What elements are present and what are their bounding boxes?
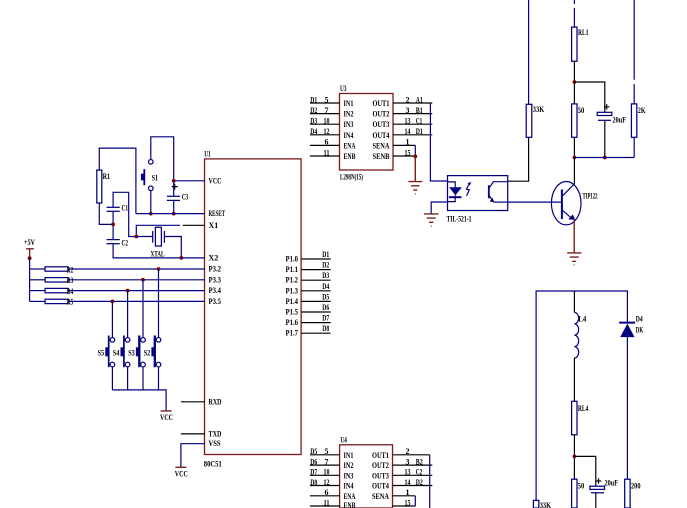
svg-text:OUT4: OUT4 xyxy=(373,131,390,140)
pin 1 SENA (U4) xyxy=(393,488,416,497)
svg-text:D3: D3 xyxy=(322,271,329,280)
svg-text:A1: A1 xyxy=(416,95,423,104)
switch S2 xyxy=(144,336,161,368)
node junction P3.4 drop xyxy=(126,289,130,293)
svg-text:XTAL: XTAL xyxy=(151,250,165,259)
svg-text:R1: R1 xyxy=(103,172,111,181)
capacitor 20uF (top right, polarized) xyxy=(597,104,626,125)
svg-text:P1.4: P1.4 xyxy=(286,297,299,306)
svg-text:OUT1: OUT1 xyxy=(372,451,389,460)
svg-text:10: 10 xyxy=(324,117,330,126)
wire VCC pin xyxy=(174,180,205,182)
ground under U3 sense pins xyxy=(408,156,422,193)
resistor 50 (bottom) xyxy=(572,479,585,508)
pin 6 ENA xyxy=(310,138,340,147)
pin 2 OUT1 (U4) xyxy=(393,447,430,456)
svg-text:13: 13 xyxy=(405,468,411,477)
svg-text:C1: C1 xyxy=(416,117,423,126)
resistor RL4 xyxy=(572,401,589,435)
wire drop to S4 xyxy=(127,291,129,338)
node junction P3.5 drop xyxy=(111,300,115,304)
svg-text:OUT4: OUT4 xyxy=(372,482,389,491)
wire S4 bottom xyxy=(127,367,129,390)
wire net A1 to optocoupler anode xyxy=(430,103,447,181)
svg-text:1: 1 xyxy=(406,488,410,497)
pin 3 OUT2 net B1 xyxy=(393,106,432,115)
wire bottom rail xyxy=(574,157,634,159)
diode D4 xyxy=(619,315,644,338)
svg-text:SENA: SENA xyxy=(372,492,389,501)
svg-text:IN2: IN2 xyxy=(344,461,354,470)
svg-text:50: 50 xyxy=(578,481,585,490)
svg-text:OUT3: OUT3 xyxy=(373,120,390,129)
svg-text:L4: L4 xyxy=(578,315,586,324)
svg-text:R3: R3 xyxy=(67,276,74,285)
wire crystal right to X2 xyxy=(164,237,181,258)
wire transistor collector up xyxy=(573,182,575,184)
svg-text:50: 50 xyxy=(578,106,585,115)
capacitor 20uF (bottom, polarized) xyxy=(590,478,618,493)
svg-text:200: 200 xyxy=(631,481,641,490)
wire +5V column xyxy=(29,258,31,301)
svg-text:P1.5: P1.5 xyxy=(286,308,299,317)
pin 2 OUT1 net A1 xyxy=(393,95,432,104)
node junction RL4/cap xyxy=(573,455,577,459)
svg-text:D5: D5 xyxy=(322,292,329,301)
svg-text:14: 14 xyxy=(405,478,411,487)
svg-text:IN1: IN1 xyxy=(344,451,354,460)
svg-text:P3.3: P3.3 xyxy=(209,275,222,284)
node junction S1/RESET xyxy=(149,212,153,216)
pin P1.0 net D1 xyxy=(302,250,331,259)
wire rail to inductor xyxy=(573,291,575,312)
resistor 33K (bottom) xyxy=(533,500,551,508)
pin D7/10 IN3 (U4) xyxy=(310,468,340,477)
wire X2 pin xyxy=(181,257,205,259)
optocoupler TIL-521-1 xyxy=(447,176,508,224)
wire inductor to RL4 xyxy=(573,358,575,402)
node junction P3.2 drop xyxy=(157,267,161,271)
wire SENA to SENB junction xyxy=(414,145,416,156)
svg-text:D4: D4 xyxy=(322,282,329,291)
svg-text:TIL-521-1: TIL-521-1 xyxy=(447,215,472,224)
svg-text:P1.2: P1.2 xyxy=(286,276,299,285)
svg-text:P1.3: P1.3 xyxy=(286,286,299,295)
pin P1.2 net D3 xyxy=(302,271,331,280)
svg-text:VCC: VCC xyxy=(209,176,222,185)
resistor 200 xyxy=(625,479,641,508)
power VCC under switches xyxy=(160,411,173,422)
phototransistor inside optocoupler xyxy=(488,185,490,198)
svg-text:IN2: IN2 xyxy=(344,110,354,119)
svg-text:D6: D6 xyxy=(310,457,317,466)
svg-text:D2: D2 xyxy=(310,106,317,115)
svg-text:14: 14 xyxy=(405,127,411,136)
svg-text:X1: X1 xyxy=(209,221,219,230)
switch S3 xyxy=(128,336,145,368)
resistor 33K (opto pull-up) xyxy=(526,104,545,137)
ground under transistor emitter xyxy=(567,253,581,265)
svg-text:ENB: ENB xyxy=(344,501,356,508)
ground under optocoupler xyxy=(424,214,439,226)
svg-text:1: 1 xyxy=(406,138,410,147)
svg-text:P1.7: P1.7 xyxy=(286,329,299,338)
wire switch common rail to VCC xyxy=(112,390,166,411)
wire U4 SENA to SENB xyxy=(414,496,416,506)
IC U1 80C51 box xyxy=(204,149,301,468)
svg-text:VCC: VCC xyxy=(160,413,173,422)
pin P1.1 net D2 xyxy=(302,261,331,270)
svg-text:C2: C2 xyxy=(416,468,423,477)
wire right column top xyxy=(633,0,635,104)
pin 11 ENB (U4) xyxy=(310,498,340,507)
LED inside optocoupler xyxy=(448,182,456,187)
wire diode to resistor 200 xyxy=(626,337,628,479)
svg-text:15: 15 xyxy=(405,498,411,507)
svg-text:D8: D8 xyxy=(310,478,317,487)
svg-text:15: 15 xyxy=(405,148,411,157)
wire drop to S5 xyxy=(111,301,113,337)
wire cap 2 bottom xyxy=(595,493,597,508)
pin P1.6 net D7 xyxy=(302,314,331,323)
resistor R5 xyxy=(30,298,205,307)
pin VSS stub to power xyxy=(181,444,205,468)
svg-text:80C51: 80C51 xyxy=(204,460,222,469)
resistor RL1 xyxy=(572,27,589,61)
svg-text:C2: C2 xyxy=(122,239,129,248)
svg-text:3: 3 xyxy=(406,457,410,466)
svg-text:DK: DK xyxy=(636,326,644,335)
svg-text:D5: D5 xyxy=(310,447,317,456)
svg-text:5: 5 xyxy=(325,95,329,104)
svg-text:7: 7 xyxy=(325,457,329,466)
svg-text:P1.0: P1.0 xyxy=(286,255,299,264)
IC U4 L298N box xyxy=(340,436,393,508)
svg-text:6: 6 xyxy=(325,138,329,147)
svg-text:D7: D7 xyxy=(322,314,329,323)
svg-text:+5V: +5V xyxy=(24,238,35,247)
svg-text:OUT1: OUT1 xyxy=(373,99,390,108)
svg-text:2: 2 xyxy=(406,95,410,104)
svg-text:6: 6 xyxy=(325,488,329,497)
svg-text:20uF: 20uF xyxy=(613,116,627,125)
pin TXD stub xyxy=(181,433,205,435)
svg-text:33K: 33K xyxy=(540,501,552,508)
svg-text:12: 12 xyxy=(324,478,330,487)
svg-text:U1: U1 xyxy=(204,149,211,158)
svg-text:S4: S4 xyxy=(113,348,120,357)
svg-text:D4: D4 xyxy=(310,127,317,136)
svg-text:D1: D1 xyxy=(322,250,329,259)
pin RXD stub xyxy=(181,401,205,403)
svg-text:20uF: 20uF xyxy=(605,479,619,488)
svg-text:D1: D1 xyxy=(416,127,423,136)
svg-text:11: 11 xyxy=(324,498,330,507)
capacitor C2 xyxy=(107,239,129,248)
wire middle column top xyxy=(573,0,575,27)
svg-text:U3: U3 xyxy=(340,84,347,93)
svg-text:D3: D3 xyxy=(310,117,317,126)
wire U4 pin2 down xyxy=(429,455,431,508)
wire S1 top loop to VCC xyxy=(151,137,174,181)
wire crystal left xyxy=(136,236,152,238)
svg-text:RL4: RL4 xyxy=(578,404,589,413)
svg-text:2K: 2K xyxy=(638,106,646,115)
pin 15 SENB xyxy=(393,148,415,157)
node junction C3 top xyxy=(172,179,176,183)
inductor L4 xyxy=(574,312,586,358)
wire optocoupler emitter to transistor base xyxy=(508,201,562,203)
svg-text:ENA: ENA xyxy=(344,141,356,150)
svg-text:D8: D8 xyxy=(322,324,329,333)
wire C2 bottom to X2 xyxy=(113,244,181,258)
svg-text:L298N(15): L298N(15) xyxy=(340,173,363,182)
node junction R1/C1/C2 xyxy=(111,223,115,227)
svg-text:ENA: ENA xyxy=(344,492,356,501)
svg-text:7: 7 xyxy=(325,106,329,115)
svg-text:3: 3 xyxy=(406,106,410,115)
node junction SENB ground xyxy=(413,155,417,159)
crystal XTAL xyxy=(151,227,165,258)
resistor 2K xyxy=(631,104,646,137)
svg-text:IN4: IN4 xyxy=(344,482,354,491)
svg-text:IN3: IN3 xyxy=(344,471,354,480)
transistor Q1 TIP122 xyxy=(551,182,597,225)
pin 1 SENA xyxy=(393,138,415,147)
svg-text:SENA: SENA xyxy=(373,141,390,150)
svg-text:13: 13 xyxy=(405,117,411,126)
wire junction to cap 2 xyxy=(574,456,595,486)
pin 14 OUT4 net D1 xyxy=(393,127,432,136)
svg-text:S1: S1 xyxy=(152,174,159,183)
wire X1 pin xyxy=(136,225,180,236)
svg-text:S5: S5 xyxy=(98,348,105,357)
wire 50 bottom to bottom rail xyxy=(573,137,575,157)
wire RL4 bottom xyxy=(573,435,575,479)
wire net V+ left column top xyxy=(528,0,530,104)
pin 15 SENB (U4) xyxy=(393,498,416,507)
light arrow inside optocoupler xyxy=(466,185,469,196)
node junction C3/RESET xyxy=(172,212,176,216)
pin P1.5 net D6 xyxy=(302,303,331,312)
node junction P3.3 drop xyxy=(141,278,145,282)
switch S5 xyxy=(98,336,115,368)
capacitor C3 (reset, polarized) xyxy=(167,181,188,214)
node junction +5V xyxy=(28,256,32,260)
svg-text:P3.2: P3.2 xyxy=(209,265,222,274)
svg-text:R2: R2 xyxy=(67,265,74,274)
pin D4/12 IN4 xyxy=(310,127,340,136)
wire junction to capacitor top xyxy=(574,82,604,112)
svg-text:TIP122: TIP122 xyxy=(583,192,598,201)
pin P1.4 net D5 xyxy=(302,292,331,301)
pin D6/7 IN2 (U4) xyxy=(310,457,340,466)
wire rail to transistor collector xyxy=(573,158,575,182)
wire C1 bottom / R1 node / C2 top xyxy=(112,211,114,239)
pin D3/10 IN3 xyxy=(310,117,340,126)
resistor 50 (top) xyxy=(572,104,585,137)
resistor R3 xyxy=(30,276,205,285)
svg-text:OUT2: OUT2 xyxy=(372,461,389,470)
IC U3 L298N box xyxy=(340,84,394,182)
svg-text:2: 2 xyxy=(406,447,410,456)
pin D2/7 IN2 xyxy=(310,106,340,115)
resistor R2 xyxy=(30,265,205,274)
wire S3 bottom xyxy=(142,367,144,390)
power VCC under VSS xyxy=(175,467,188,478)
wire S1 bottom to reset xyxy=(150,191,152,214)
svg-text:D4: D4 xyxy=(636,315,643,324)
svg-text:RXD: RXD xyxy=(209,397,222,406)
svg-text:ENB: ENB xyxy=(344,152,356,161)
node junction crystal/X2 xyxy=(179,256,183,260)
svg-text:11: 11 xyxy=(324,148,330,157)
pin 6 ENA (U4) xyxy=(310,488,340,497)
capacitor C1 xyxy=(107,204,129,213)
wire transistor emitter to ground xyxy=(573,220,575,253)
wire optocoupler cathode to ground xyxy=(431,202,447,214)
node junction X1/crystal xyxy=(134,235,138,239)
svg-text:C1: C1 xyxy=(122,204,129,213)
svg-text:S2: S2 xyxy=(144,348,151,357)
wire R1 top rail xyxy=(99,148,136,214)
pin 13 OUT3 net C2 (U4) xyxy=(393,468,433,477)
wire RESET pin xyxy=(136,213,205,215)
svg-text:B1: B1 xyxy=(416,106,423,115)
svg-text:33K: 33K xyxy=(533,105,545,114)
svg-text:OUT3: OUT3 xyxy=(372,471,389,480)
svg-text:VCC: VCC xyxy=(175,470,188,479)
svg-text:P3.4: P3.4 xyxy=(209,286,222,295)
svg-text:S3: S3 xyxy=(128,348,135,357)
svg-text:SENB: SENB xyxy=(373,152,391,161)
svg-text:TXD: TXD xyxy=(209,429,222,438)
wire 33K bottom to optocoupler collector xyxy=(508,137,529,181)
svg-text:5: 5 xyxy=(325,447,329,456)
wire capacitor bottom xyxy=(604,120,606,157)
svg-text:R5: R5 xyxy=(67,298,74,307)
svg-text:RL1: RL1 xyxy=(578,28,589,37)
svg-text:X2: X2 xyxy=(209,253,219,262)
node junction bottom rail cap xyxy=(603,156,607,160)
svg-text:D2: D2 xyxy=(322,261,329,270)
svg-text:D2: D2 xyxy=(416,478,423,487)
svg-text:IN1: IN1 xyxy=(344,99,354,108)
switch S4 xyxy=(113,336,130,368)
pin 11 ENB xyxy=(310,148,340,157)
switch S1 (reset button) xyxy=(141,160,158,191)
pin 3 OUT2 net B2 (U4) xyxy=(393,457,433,466)
svg-text:R4: R4 xyxy=(67,287,74,296)
svg-text:U4: U4 xyxy=(340,436,347,445)
wire S2 bottom xyxy=(158,367,160,390)
svg-text:IN3: IN3 xyxy=(344,120,354,129)
svg-text:C3: C3 xyxy=(182,193,189,202)
pin 14 OUT4 net D2 (U4) xyxy=(393,478,433,487)
resistor R4 xyxy=(30,287,205,296)
pin D5/5 IN1 (U4) xyxy=(310,447,340,456)
pin D8/12 IN4 (U4) xyxy=(310,478,340,487)
wire drop to S2 xyxy=(158,269,160,338)
svg-text:D1: D1 xyxy=(310,95,317,104)
svg-text:RESET: RESET xyxy=(209,209,226,218)
svg-text:P1.6: P1.6 xyxy=(286,318,299,327)
pin 13 OUT3 net C1 xyxy=(393,117,432,126)
svg-text:OUT2: OUT2 xyxy=(373,110,390,119)
svg-text:D7: D7 xyxy=(310,468,317,477)
svg-text:10: 10 xyxy=(324,468,330,477)
wire 2K bottom xyxy=(633,137,635,157)
svg-text:IN4: IN4 xyxy=(344,131,354,140)
pin P1.3 net D4 xyxy=(302,282,331,291)
node junction bottom rail left xyxy=(573,156,577,160)
wire R1 bottom xyxy=(99,203,113,224)
node junction RL1/50/cap xyxy=(573,80,577,84)
svg-text:D6: D6 xyxy=(322,303,329,312)
wire drop to S3 xyxy=(142,280,144,338)
pin D1/5 IN1 xyxy=(310,95,340,104)
svg-text:P3.5: P3.5 xyxy=(209,297,222,306)
wire motor top rail xyxy=(536,291,627,500)
svg-text:P1.1: P1.1 xyxy=(286,265,299,274)
svg-text:VSS: VSS xyxy=(209,439,221,448)
pin P1.7 net D8 xyxy=(302,324,331,333)
wire C1 top to X1 node xyxy=(113,192,136,236)
svg-text:B2: B2 xyxy=(416,457,423,466)
resistor R1 xyxy=(97,170,110,203)
power +5V xyxy=(24,238,35,258)
wire S5 bottom xyxy=(111,367,113,390)
wire RL1 bottom xyxy=(573,61,575,104)
svg-text:12: 12 xyxy=(324,127,330,136)
